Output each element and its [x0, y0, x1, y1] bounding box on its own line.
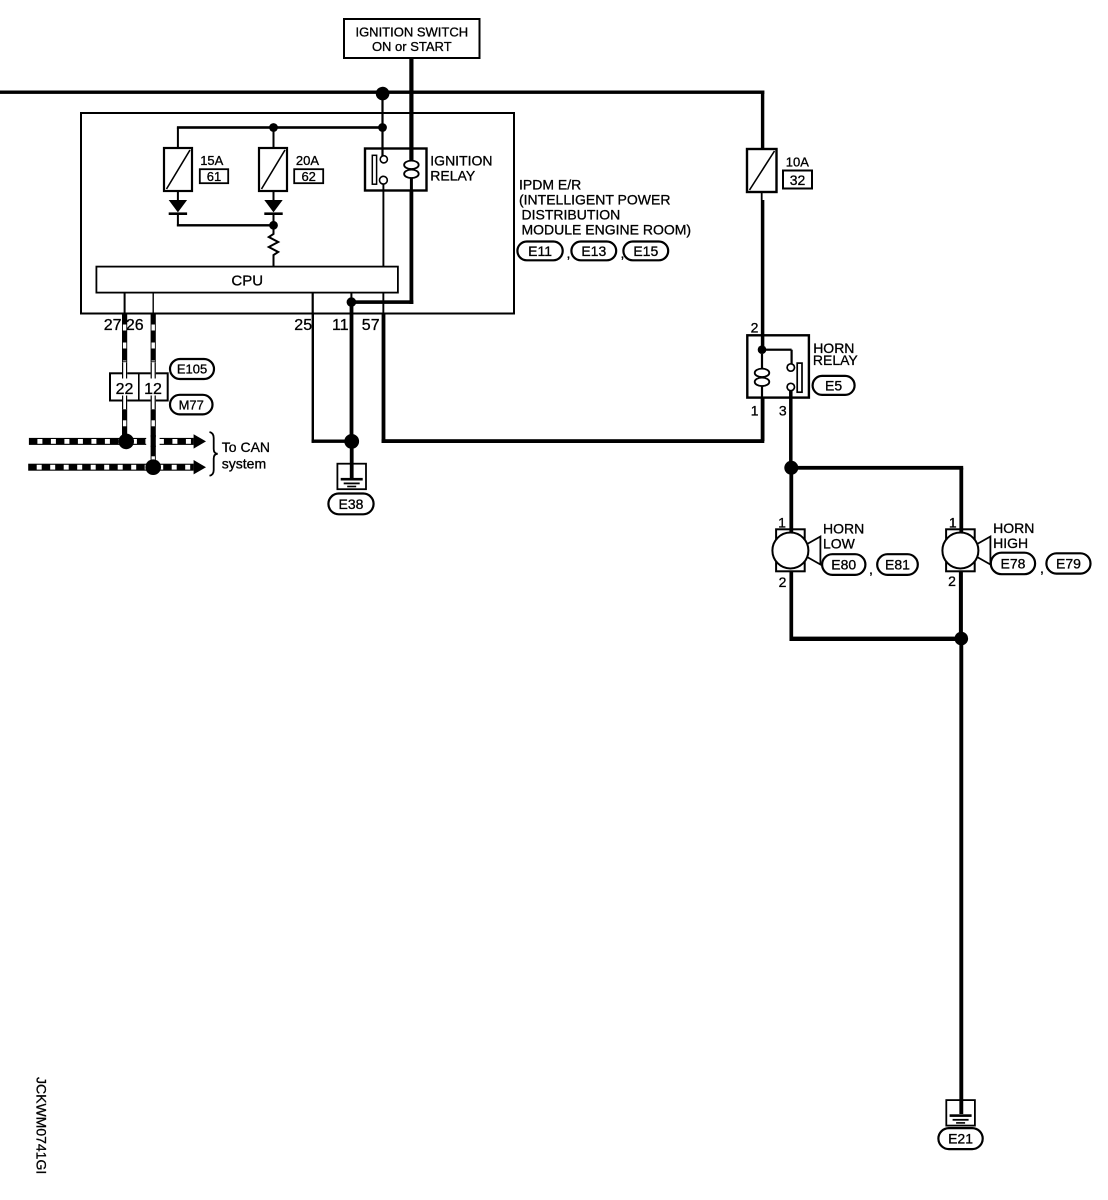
connector E11 — [517, 242, 562, 261]
svg-text:3: 3 — [779, 402, 787, 418]
gap in CAN line 1 for crossing wire — [146, 437, 159, 445]
wire pin 57 down — [382, 314, 386, 444]
connector M77 — [170, 395, 213, 415]
wire internal fuse bus — [177, 126, 384, 129]
ground symbol E21 — [946, 1100, 975, 1126]
connector plug stub pin 12 bottom — [151, 396, 156, 410]
wire CPU to junction — [350, 293, 352, 299]
wire pin 25 down — [312, 314, 314, 443]
wire junction down to ground E21 — [959, 639, 963, 1114]
ignition relay contact pins — [380, 156, 387, 163]
svg-text:32: 32 — [790, 172, 806, 188]
svg-text:RELAY: RELAY — [430, 168, 476, 184]
wire ignition relay coil return down — [410, 191, 414, 305]
CAN wire pin 26 crossing line 1 — [151, 435, 156, 447]
CAN wire pin 27 lower — [122, 409, 127, 438]
svg-text:JCKWM0741GI: JCKWM0741GI — [34, 1077, 50, 1174]
svg-text:11: 11 — [332, 317, 349, 334]
svg-text:2: 2 — [948, 573, 956, 589]
svg-text:61: 61 — [207, 169, 221, 184]
CAN wire pin 26 upper — [151, 314, 156, 363]
wire down to horn high pin 1 — [959, 468, 963, 533]
wire horn relay coil top lead — [761, 354, 763, 369]
svg-text:E80: E80 — [831, 557, 856, 573]
svg-text:MODULE ENGINE ROOM): MODULE ENGINE ROOM) — [522, 222, 692, 238]
wire ignition relay coil to box bottom — [410, 178, 413, 191]
svg-text:10A: 10A — [786, 155, 809, 170]
svg-text:HIGH: HIGH — [993, 535, 1028, 551]
svg-text:HORN: HORN — [993, 520, 1034, 536]
wire coil return horizontal to node — [350, 300, 414, 304]
svg-text:,: , — [869, 561, 873, 577]
connector E13 — [571, 242, 616, 261]
wire CPU pin 25 inside box — [312, 293, 314, 314]
wire down to contact pin — [791, 350, 793, 364]
fuse number box 32 — [783, 171, 812, 189]
horn relay contact pins — [787, 364, 794, 371]
svg-text:ON or START: ON or START — [372, 39, 452, 54]
junction CAN wire 27 on line 1 — [118, 434, 134, 450]
wire horn low return to junction — [790, 637, 964, 641]
svg-text:E79: E79 — [1056, 555, 1081, 571]
horn relay box — [747, 335, 809, 397]
connector E21 — [938, 1128, 982, 1149]
fuse number box 61 — [200, 169, 228, 183]
connector box pins 22 and 12 — [110, 373, 168, 400]
junction internal bus at relay contact — [378, 123, 387, 132]
wire fuse 61 to diode — [177, 191, 179, 200]
wire horn relay internal to contact — [762, 349, 792, 351]
ground symbol E38 — [337, 464, 366, 490]
wire horn feed to horn high — [791, 466, 963, 470]
brace to CAN system — [210, 432, 218, 476]
svg-text:To CAN: To CAN — [222, 439, 270, 455]
junction horn feed — [784, 461, 798, 475]
svg-text:,: , — [1040, 560, 1044, 576]
ignition relay coil — [404, 161, 419, 178]
diode D2 under fuse 62 — [264, 200, 282, 215]
svg-text:E5: E5 — [825, 377, 842, 393]
svg-text:22: 22 — [116, 381, 134, 398]
wire ignition switch to ignition relay coil — [409, 58, 413, 161]
svg-text:2: 2 — [751, 319, 759, 335]
wire fuse 32 stub — [761, 192, 763, 200]
wire horn high pin 2 down — [959, 571, 963, 639]
connector plug stub pin 12 top — [151, 362, 156, 378]
horn low symbol — [772, 529, 820, 571]
fuse number box 62 — [294, 169, 323, 183]
junction horn grounds — [955, 632, 969, 646]
junction on battery bus — [376, 87, 390, 101]
fuse F61 15A — [164, 148, 192, 191]
wire pin 11 down to ground node — [350, 302, 354, 441]
connector E79 — [1046, 553, 1090, 573]
wire fuse 62 to diode — [273, 191, 275, 200]
svg-text:IGNITION: IGNITION — [430, 153, 492, 169]
svg-text:E21: E21 — [948, 1131, 973, 1147]
wire horn low pin 2 down — [789, 571, 793, 641]
CAN wire pin 26 lower — [151, 409, 156, 463]
svg-text:RELAY: RELAY — [813, 352, 859, 368]
svg-text:15A: 15A — [200, 153, 223, 168]
wire pin 57 to horn relay pin 1 — [382, 439, 765, 443]
junction internal bus at fuse 62 — [269, 123, 278, 132]
horn high symbol — [942, 529, 990, 571]
CPU box — [96, 267, 398, 293]
wire horn relay coil bottom lead — [761, 386, 763, 398]
wire battery bus drop to fuse 32 — [761, 91, 764, 151]
wire battery bus horizontal — [0, 91, 764, 94]
ignition relay contact bar — [372, 155, 376, 184]
svg-text:,: , — [567, 245, 571, 261]
svg-text:1: 1 — [949, 514, 957, 530]
wire down to horn low pin 1 — [789, 468, 793, 533]
svg-text:62: 62 — [301, 169, 315, 184]
svg-text:E13: E13 — [581, 243, 606, 259]
connector E80 — [822, 554, 865, 575]
junction ground node E38 — [344, 434, 359, 449]
svg-text:26: 26 — [126, 317, 144, 334]
arrowhead CAN line 2 — [194, 460, 206, 474]
wire diode D2 to node — [273, 214, 275, 227]
svg-text:LOW: LOW — [823, 536, 856, 552]
connector E5 — [813, 376, 855, 395]
ignition relay U1 box — [365, 149, 427, 191]
CAN line 1 to CAN system — [29, 438, 194, 445]
wire CPU pin 26 inside box — [153, 293, 154, 314]
horn relay coil — [755, 369, 770, 387]
resistor R1 to CPU — [269, 227, 278, 267]
wire pin 25 to ground junction — [312, 440, 352, 443]
wire horn relay pin 3 down — [789, 391, 793, 468]
svg-text:E81: E81 — [885, 557, 910, 573]
svg-text:12: 12 — [144, 381, 162, 398]
svg-text:M77: M77 — [179, 397, 204, 412]
wire joining diode outputs — [177, 224, 275, 226]
wire up to horn relay pin 1 — [761, 398, 765, 442]
svg-text:(INTELLIGENT POWER: (INTELLIGENT POWER — [519, 191, 670, 207]
svg-text:27: 27 — [104, 317, 122, 334]
connector E15 — [623, 242, 668, 261]
junction CAN wire 26 on line 2 — [145, 459, 161, 475]
svg-text:HORN: HORN — [823, 520, 864, 536]
svg-text:E38: E38 — [339, 496, 364, 512]
svg-text:1: 1 — [778, 514, 786, 530]
diode D1 under fuse 61 — [169, 200, 187, 215]
connector E78 — [991, 553, 1035, 575]
wire riser to fuse 62 — [273, 128, 275, 150]
svg-text:CPU: CPU — [231, 272, 263, 289]
connector plug stub pin 22 bottom — [122, 396, 127, 410]
junction coil return and CPU pin 11 — [347, 297, 357, 307]
svg-text:E11: E11 — [528, 243, 552, 259]
svg-text:IGNITION SWITCH: IGNITION SWITCH — [355, 25, 468, 40]
svg-text:2: 2 — [779, 574, 787, 590]
IPDM E/R box — [81, 113, 514, 314]
wire relay contact to CPU top — [382, 184, 384, 267]
svg-text:20A: 20A — [296, 153, 319, 168]
svg-text:E15: E15 — [633, 243, 658, 259]
junction inside horn relay — [758, 345, 767, 354]
connector E105 — [170, 359, 214, 379]
wire diode D1 to link — [177, 214, 179, 226]
wire CPU pin 27 inside box — [124, 293, 126, 314]
connector plug stub pin 22 top — [122, 362, 127, 378]
svg-text:1: 1 — [751, 402, 759, 418]
wire CPU bottom to pin 57 — [382, 293, 384, 314]
svg-text:system: system — [222, 455, 266, 471]
CAN wire pin 27 upper — [122, 314, 127, 363]
fuse F32 10A — [747, 149, 777, 192]
svg-text:E105: E105 — [177, 362, 207, 377]
junction diodes to resistor — [269, 221, 278, 230]
connector E38 — [328, 494, 373, 515]
wire riser to fuse 61 — [177, 128, 179, 150]
fuse F62 20A — [259, 148, 287, 191]
svg-text:E78: E78 — [1000, 555, 1025, 571]
arrowhead CAN line 1 — [194, 434, 206, 448]
wire fuse 32 to horn relay pin 2 — [761, 200, 765, 350]
svg-text:IPDM E/R: IPDM E/R — [519, 176, 581, 192]
wire junction to ground E38 — [350, 441, 354, 479]
svg-text:DISTRIBUTION: DISTRIBUTION — [522, 207, 621, 223]
svg-text:25: 25 — [294, 317, 312, 334]
horn relay contact bar — [797, 363, 802, 392]
connector E81 — [877, 554, 918, 575]
svg-text:57: 57 — [362, 317, 380, 334]
wire bus junction to internal bus and relay contact — [381, 94, 383, 156]
power source box IGNITION SWITCH ON or START — [344, 19, 480, 58]
CAN line 2 to CAN system — [28, 464, 193, 471]
